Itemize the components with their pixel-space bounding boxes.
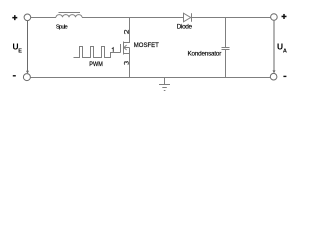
voltage arrow UE <box>26 21 29 74</box>
svg-text:PWM: PWM <box>89 61 103 68</box>
PWM square wave <box>74 47 121 58</box>
voltage arrow UA <box>273 21 276 74</box>
capacitor Kondensator <box>222 18 230 78</box>
wire top middle <box>82 17 184 19</box>
terminal BL <box>23 74 30 81</box>
svg-text:MOSFET: MOSFET <box>134 43 159 49</box>
svg-text:A: A <box>283 49 287 55</box>
svg-text:E: E <box>18 49 22 55</box>
MOSFET body arrow <box>124 45 130 50</box>
diode D <box>184 13 192 22</box>
wire bottom <box>30 77 270 79</box>
MOSFET source stub <box>124 54 130 78</box>
svg-text:Kondensator: Kondensator <box>188 50 222 57</box>
ground <box>159 78 170 91</box>
terminal BR <box>270 73 277 80</box>
wire top right <box>192 17 271 19</box>
inductor Spule <box>56 13 82 18</box>
MOSFET right vertical <box>129 48 131 54</box>
plus sign output <box>282 14 287 19</box>
wire top left <box>31 17 56 19</box>
label UA <box>277 42 287 55</box>
plus sign input <box>12 15 17 20</box>
MOSFET gate bar <box>120 44 122 53</box>
pin 3 source <box>124 62 128 65</box>
minus sign input <box>13 75 16 76</box>
svg-text:Spule: Spule <box>56 25 68 31</box>
terminal TL <box>24 14 31 21</box>
terminal TR <box>271 14 278 21</box>
pin 2 drain <box>124 30 128 34</box>
svg-text:Diode: Diode <box>177 23 193 30</box>
MOSFET channel bar <box>123 42 125 55</box>
minus sign output <box>283 76 286 77</box>
label UE <box>13 42 23 55</box>
pin 1 gate <box>112 48 113 52</box>
MOSFET drain stub <box>124 18 130 43</box>
